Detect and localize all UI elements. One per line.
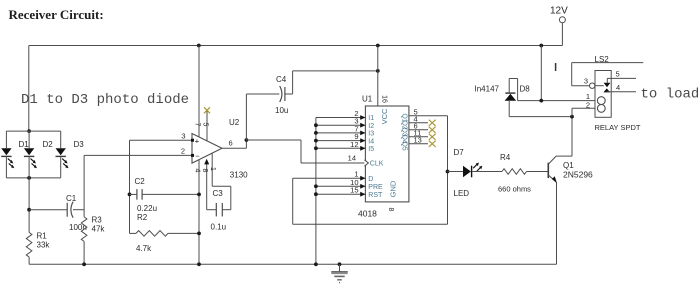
svg-text:5: 5 [202,123,209,127]
wire CLK [301,162,365,164]
label pin 1 (D) [354,170,358,179]
label RELAY SPDT [595,123,641,132]
LED D7 [463,166,472,178]
svg-text:I2: I2 [368,123,374,130]
diode D8 [505,93,517,101]
annotation to load [641,87,700,103]
label C4 [276,75,287,84]
label C4 value 10u [275,106,288,115]
wire input I4 [316,138,366,143]
ground symbol [331,264,347,282]
relay coil [597,97,605,113]
svg-text:Receiver Circuit:: Receiver Circuit: [9,7,104,22]
no-connect X Q4 [429,134,436,140]
label C2 [135,177,146,186]
relay contact arrow lower [603,88,610,92]
wire non-inverting input (pin3) [130,139,193,141]
U1 I3 text [368,131,374,138]
label LS2 [595,55,610,64]
wire C4 riser [245,94,247,140]
op-amp pin4 wire [198,160,200,264]
junction output node [245,138,249,142]
junction bus I3 [314,131,318,135]
svg-text:I5: I5 [368,146,374,153]
svg-text:33k: 33k [37,241,51,250]
wire output to CLK [246,140,365,163]
label In4147 [475,85,500,94]
label R1 value 33k [37,241,51,250]
Q1 emitter [549,175,557,183]
U1 RST text [368,192,383,199]
label 12V [550,6,568,17]
U1 GND text [388,180,397,197]
annotation D1 to D3 photo diode [21,92,189,108]
label D1 [19,140,30,149]
junction rail bus [314,262,318,266]
U1 VCC text [380,108,389,124]
svg-text:5: 5 [616,70,620,79]
svg-text:+: + [195,137,200,146]
junction rail/relay branch [539,44,543,48]
wire LED node drop [447,172,449,225]
wire Q5 stub [409,143,428,145]
svg-text:VCC: VCC [380,108,389,124]
wire op-amp output [222,140,246,148]
svg-text:6: 6 [229,139,233,148]
U1 PRE text [368,184,383,191]
junction bus RST [314,192,318,196]
svg-text:PRE: PRE [368,184,383,191]
wire pin1 to C3 [212,186,231,209]
U1 CLK text [370,161,384,168]
label R1 [37,232,48,241]
label C2 value 0.22u [137,204,157,213]
photodiode D3 [56,131,69,178]
label Q1 [563,161,574,170]
op-amp pin5 stub [206,111,208,141]
svg-text:R1: R1 [37,232,48,241]
svg-text:D8: D8 [520,85,531,94]
label LED [454,189,470,198]
U1 pin16 wire [377,46,379,107]
no-connect X Q2 [429,120,436,126]
U1 I1 text [368,115,374,122]
junction rail/op-amp pin7 [197,44,201,48]
label pin 2 [354,109,358,118]
svg-text:12V: 12V [550,6,568,17]
wire left supply drop [28,46,30,132]
label R4 [500,153,511,162]
svg-text:D7: D7 [454,148,465,157]
wire LED node to anode [448,171,464,173]
junction rail ground [338,262,342,266]
label pin 16 [381,95,388,103]
svg-text:U1: U1 [362,95,373,104]
U1 D text [368,176,373,183]
svg-text:RST: RST [368,192,383,199]
svg-text:14: 14 [348,154,356,163]
op-amp plus sign [195,137,200,146]
svg-text:0.1u: 0.1u [211,223,227,232]
junction supply/coil [539,99,543,103]
wire D feedback [293,178,448,224]
svg-text:to load: to load [641,87,700,103]
junction C4/VCC [376,69,380,73]
wire LED to R4 [472,171,502,173]
junction bus I5 [314,146,318,150]
svg-text:D3: D3 [74,140,85,149]
Q1 collector [549,117,572,164]
op-amp minus sign [195,152,200,161]
label C1 [66,194,77,203]
junction rail/U1 pin16 [376,44,380,48]
svg-text:8: 8 [201,169,208,173]
label R4 value 660 ohms [498,185,531,194]
label pin 3 (relay) [584,77,588,86]
svg-text:0.22u: 0.22u [137,204,157,213]
wire Q3 stub [409,129,428,131]
relay pin5 wire [607,77,636,79]
wire R1 bottom [28,257,30,264]
wire R2 right lead [168,232,199,234]
label pin 1 [209,167,216,171]
wire R2 left lead [130,232,137,234]
label pin 1 (relay) [586,92,590,101]
no-connect X Q5 [429,141,436,147]
junction C2 left [128,193,132,197]
label pin 15 [350,186,358,195]
junction R2 right [197,232,201,236]
U1 I4 text [368,138,374,145]
svg-text:4.7k: 4.7k [136,244,152,253]
wire top supply rail [29,45,563,47]
label pin 10 [350,178,358,187]
wire Q4 stub [409,136,428,138]
svg-text:D: D [368,176,373,183]
label U1 [362,95,373,104]
wire RST [316,193,366,195]
label D7 [454,148,465,157]
label pin 2 (relay) [586,101,590,110]
label pin 5 (Q1) [414,108,418,117]
node photodiode cathode rail [27,176,31,180]
D pin arrow [360,176,365,181]
svg-text:LED: LED [454,189,470,198]
junction C2 right [197,193,201,197]
svg-text:4: 4 [194,169,201,173]
op-amp pin2 nub [191,154,194,157]
svg-text:CLK: CLK [370,161,384,168]
junction rail R3 [82,262,86,266]
wire Q1 output to LED node [409,116,448,172]
wire input I2 [316,123,366,128]
svg-text:I1: I1 [368,115,374,122]
svg-text:3130: 3130 [230,171,248,180]
wire diode node down [28,178,30,233]
label pin 7 [194,123,201,127]
label pin 2 [181,147,185,156]
svg-text:Q5: Q5 [400,141,407,150]
no-connect X on pin5 [204,107,210,113]
svg-text:2N5296: 2N5296 [563,170,593,180]
RST pin arrow [360,192,365,197]
wire D8 anode drop [509,101,572,117]
relay LS2 box [595,71,611,118]
label R2 [137,213,148,222]
label pin 8 [201,169,208,173]
junction LED node [446,170,450,174]
label pin 6 [414,122,418,131]
svg-text:1: 1 [209,167,216,171]
junction C1 tap [27,208,31,212]
label pin 5 [202,123,209,127]
svg-text:R2: R2 [137,213,148,222]
label pin 6 [229,139,233,148]
label pin 3 [181,132,185,141]
label 3130 [230,171,248,180]
svg-text:GND: GND [388,180,397,197]
junction bus PRE [314,184,318,188]
label D2 [43,140,54,149]
svg-text:−: − [195,152,200,161]
label 2N5296 [563,170,593,180]
svg-text:C1: C1 [66,194,77,203]
resistor R1 [26,232,32,257]
label pin 5 (relay) [616,70,620,79]
wire coil pin2 feed [572,108,595,116]
junction collector node [570,115,574,119]
svg-text:660 ohms: 660 ohms [498,185,531,194]
op-amp pin8 wire [206,163,208,210]
op-amp pin3 nub [191,139,194,142]
label pin 12 [350,140,358,149]
relay pin4 wire [607,91,636,93]
wire C1 right lead [73,209,84,211]
wire R3 bottom [83,241,85,264]
svg-text:3: 3 [181,132,185,141]
title text [9,7,104,22]
wire C4 left lead [246,93,279,95]
capacitor C2 [137,189,142,200]
svg-text:In4147: In4147 [475,85,500,94]
wire 12V drop [561,23,563,46]
U1 I5 text [368,146,374,153]
label C1 value 100n [69,223,87,232]
label I tick [555,63,557,71]
label pin 13 [414,136,422,145]
photodiode D2 [24,131,37,178]
svg-text:10u: 10u [275,106,288,115]
wire emitter down [556,182,558,264]
resistor R2 [136,231,168,237]
wire diode array top rail [6,130,60,132]
label 4018 [358,209,377,219]
svg-text:8: 8 [387,208,394,212]
wire R4 to base [527,171,548,173]
wire input I1 [316,115,366,120]
wire ground rail [29,263,556,265]
PRE pin arrow [360,184,365,189]
label D3 [74,140,85,149]
svg-text:C4: C4 [276,75,287,84]
svg-text:4: 4 [616,83,620,92]
svg-text:C2: C2 [135,177,146,186]
label R3 [92,216,103,225]
node photodiode anode rail [27,129,31,133]
svg-text:I4: I4 [368,138,374,145]
svg-text:R3: R3 [92,216,103,225]
svg-text:R4: R4 [500,153,511,162]
wire input I3 [316,131,366,136]
capacitor C3 [216,203,222,217]
svg-text:47k: 47k [92,225,106,234]
wire input I5 [316,146,366,151]
U1 Q3 text [400,127,407,136]
svg-text:D1: D1 [19,140,30,149]
wire C1 left lead [29,209,67,211]
label pin 14 [348,154,356,163]
LED arrows [473,163,482,172]
pin8 arrow [204,159,209,165]
relay common wire [572,63,644,86]
label D8 [520,85,531,94]
label R3 value 47k [92,225,106,234]
svg-text:2: 2 [586,101,590,110]
wire D8 cathode hook [509,79,517,101]
label pin 4 [194,169,201,173]
terminal 12V [559,17,565,23]
svg-text:D1 to D3 photo diode: D1 to D3 photo diode [21,92,189,108]
op-amp pin7 wire [198,46,200,137]
svg-text:D2: D2 [43,140,54,149]
label R2 value 4.7k [136,244,152,253]
junction bus I2 [314,123,318,127]
wire relay branch drop [540,46,542,101]
wire coil pin1 feed [518,100,595,102]
wire non-inverting riser [129,140,131,233]
label pin 8 (GND) [387,208,394,212]
op-amp pin1 wire [211,153,213,186]
svg-text:16: 16 [381,95,388,103]
capacitor C1 [67,202,73,218]
label pin 3 [354,117,358,126]
svg-text:3: 3 [584,77,588,86]
svg-text:7: 7 [194,123,201,127]
wire C2 right lead [142,193,199,195]
wire R3 top riser [83,155,85,217]
svg-text:C3: C3 [213,189,224,198]
junction rail pin4 [197,262,201,266]
svg-text:2: 2 [181,147,185,156]
label C3 value 0.1u [211,223,227,232]
no-connect X Q3 [429,127,436,133]
wire inverting input (pin2) [84,154,192,156]
svg-text:13: 13 [414,136,422,145]
wire diode array bottom rail [6,177,60,179]
resistor R3 [81,217,87,242]
label pin 4 [414,115,418,124]
svg-text:100n: 100n [69,223,87,232]
U1 Q4 text [400,134,407,143]
IC U1 box [365,106,409,202]
transistor Q1 base bar [547,163,549,178]
wire C3 right lead [222,209,231,211]
wire C2 left lead [130,193,137,195]
svg-text:4018: 4018 [358,209,377,219]
svg-text:I3: I3 [368,131,374,138]
U1 I2 text [368,123,374,130]
relay contact arrow upper [604,78,611,87]
svg-text:RELAY SPDT: RELAY SPDT [595,123,641,132]
U1 Q5 text [400,141,407,150]
wire C3 left lead [207,209,217,211]
label pin 9 [354,132,358,141]
U1 Q2 text [400,120,407,129]
capacitor C4 [280,86,285,102]
wire C4 right lead [285,71,378,94]
photodiode D1 [1,131,14,178]
junction bus I4 [314,139,318,143]
relay pin3 terminal [590,83,595,88]
label pin 4 (relay) [616,83,620,92]
svg-text:U2: U2 [229,118,240,127]
svg-text:15: 15 [350,186,358,195]
CLK arrow [364,160,368,166]
wire Q2 stub [409,122,428,124]
svg-text:12: 12 [350,140,358,149]
U1 Q1 text [400,113,407,122]
label pin 7 [354,124,358,133]
label pin 11 [414,129,422,138]
resistor R4 [502,169,527,175]
wire input bus [315,118,317,265]
label C3 [213,189,224,198]
wire PRE [316,185,366,187]
label U2 [229,118,240,127]
op-amp U2 body [192,134,222,164]
